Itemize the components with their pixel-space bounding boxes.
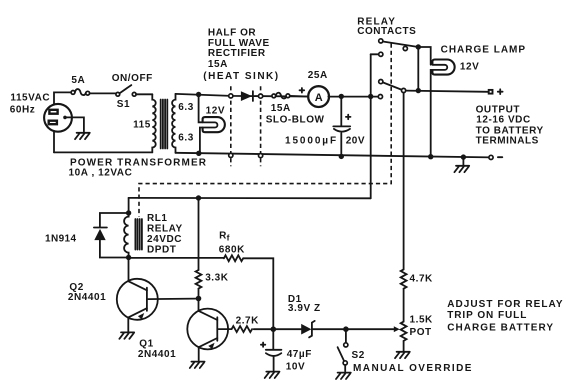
switch S1 (116, 92, 120, 96)
wire bottom rail left (54, 151, 152, 153)
wire D1 anode (276, 328, 301, 330)
lamp DS2 charge lamp (432, 60, 454, 75)
heat sink boundary dashed left (230, 86, 232, 166)
node filter cap bottom (339, 154, 344, 159)
node relay coil bottom (126, 255, 131, 260)
sections get appended here (44, 85, 491, 157)
wire ground stub output (462, 157, 464, 165)
relay contact pole1 common terminal (379, 52, 383, 56)
svg-text:115: 115 (133, 119, 151, 130)
capacitor C2 plate flat (266, 349, 282, 351)
mechanical linkage dashed (139, 44, 391, 217)
transformer T1 primary winding (152, 94, 155, 152)
svg-text:12V: 12V (460, 61, 479, 72)
transistor Q1 2N4401 (187, 309, 228, 350)
node D1 anode junction (271, 326, 277, 332)
svg-text:115VAC: 115VAC (10, 92, 50, 103)
capacitor C1 plate curved (334, 129, 350, 132)
wire plus output (406, 91, 489, 92)
svg-text:5A: 5A (71, 75, 85, 86)
wire plug top to fuse (54, 92, 71, 104)
diode D2 1N914 anode triangle (94, 229, 105, 240)
wire charge lamp feed (418, 47, 430, 65)
wire Q1 collector lead (198, 299, 200, 311)
wire divider feed down (403, 93, 405, 270)
resistor R4 4.7K zigzag (401, 269, 407, 288)
wire wiper arm (346, 328, 395, 330)
svg-text:POT: POT (410, 327, 432, 338)
svg-text:1N914: 1N914 (45, 233, 77, 244)
wire fuse to switch (90, 92, 116, 94)
fuse F2 15A slo-blow (272, 94, 276, 98)
svg-text:CONTACTS: CONTACTS (357, 26, 416, 37)
rectifier diode CR1 (241, 91, 252, 101)
wire Rf to D1 junction (243, 258, 273, 326)
svg-text:24VDC: 24VDC (147, 234, 182, 245)
svg-text:RECTIFIER: RECTIFIER (208, 48, 266, 59)
svg-text:CHARGE BATTERY: CHARGE BATTERY (447, 323, 554, 334)
label plus sign output (498, 89, 503, 94)
wire Q2 collector lead (128, 258, 130, 282)
capacitor C1 stub bottom (340, 133, 342, 156)
wire Q1 base to 2.7K (219, 328, 232, 330)
switch S2 bottom terminal (343, 361, 347, 365)
terminal circle bottom left of heat sink (229, 153, 233, 157)
zener diode D1 3.9V triangle (301, 324, 311, 335)
svg-text:60Hz: 60Hz (10, 104, 36, 115)
svg-text:Q2: Q2 (69, 282, 83, 293)
wire secondary bottom rail (176, 153, 492, 158)
node filter cap top (339, 94, 344, 99)
svg-text:Q1: Q1 (139, 338, 153, 349)
ground (pot) (395, 352, 410, 358)
switch S2 ground stub (344, 365, 346, 371)
svg-text:f: f (227, 233, 230, 243)
wire pilot lamp riser upper (199, 95, 203, 123)
relay contact pole1 fixed terminal (379, 39, 383, 43)
svg-text:4.7K: 4.7K (410, 274, 434, 285)
relay RL1 core (135, 219, 142, 250)
svg-text:12V: 12V (206, 105, 225, 116)
node output minus ground junction (461, 154, 466, 159)
terminal circle top right of heat sink (259, 94, 263, 98)
svg-text:RELAY: RELAY (147, 223, 183, 234)
diode D2 1N914 wires (100, 213, 129, 258)
relay contact pole2 fixed terminal (379, 80, 383, 84)
resistor Rf 680K zigzag (224, 255, 243, 261)
AC plug P1 115VAC (44, 104, 72, 132)
heat sink boundary dashed right (260, 86, 262, 166)
relay contact pole2 arm (383, 82, 404, 90)
zener diode D1 bar with hooks (309, 321, 315, 338)
svg-text:A: A (315, 92, 323, 104)
svg-text:MANUAL OVERRIDE: MANUAL OVERRIDE (353, 363, 473, 374)
wire Q1 emitter lead (198, 347, 200, 360)
svg-text:ON/OFF: ON/OFF (112, 73, 153, 84)
plug slot upper (49, 110, 57, 114)
ground (plug) (75, 133, 90, 139)
node charge lamp bottom (428, 154, 433, 159)
polarity plus capacitor C1 (346, 115, 351, 120)
relay contact pole2 throw terminal (402, 88, 406, 92)
resistor R2 3.3K zigzag (196, 270, 202, 289)
switch S2 top terminal (344, 343, 348, 347)
capacitor C2 stub bottom (273, 356, 275, 370)
node plus wire junction (416, 88, 421, 93)
svg-text:ADJUST FOR RELAY: ADJUST FOR RELAY (447, 299, 563, 310)
capacitor C2 47uF stub (272, 329, 274, 349)
ground (Q2 emitter) (119, 332, 134, 338)
svg-text:10A , 12VAC: 10A , 12VAC (69, 167, 133, 178)
potentiometer R5 1.5K zigzag (401, 322, 407, 341)
wire plug pin to ground (67, 117, 84, 131)
svg-text:1.5K: 1.5K (410, 314, 434, 325)
wire D1 cathode to pot node (313, 328, 344, 330)
wire 3.3K riser (198, 198, 200, 270)
ground (Q1 emitter) (190, 362, 205, 368)
terminal minus output circle (489, 155, 493, 159)
ammeter M1 25A (308, 86, 329, 107)
relay RL1 coil winding (124, 213, 129, 258)
svg-text:(HEAT SINK): (HEAT SINK) (203, 71, 279, 82)
node contact pole1 output (416, 44, 421, 49)
svg-text:CHARGE LAMP: CHARGE LAMP (441, 45, 526, 56)
transformer T1 secondary winding (172, 94, 175, 153)
relay contact pole1 arm (383, 42, 419, 48)
svg-text:TRIP ON FULL: TRIP ON FULL (447, 310, 527, 321)
terminal circle bottom right of heat sink (259, 154, 263, 158)
node Q1 collector Q2 base (196, 296, 202, 302)
wire charge lamp to bottom rail (431, 70, 433, 157)
svg-text:3.9V Z: 3.9V Z (288, 303, 321, 314)
diode D2 1N914 cathode bar (94, 227, 107, 229)
wire plug bottom to rail (53, 132, 55, 153)
wire relay top horizontal (129, 197, 371, 199)
node relay riser top (368, 94, 373, 99)
plug ground pin (63, 116, 67, 120)
svg-text:15A: 15A (208, 59, 228, 70)
lamp DS1 12V pilot (203, 117, 225, 132)
wire relay bottom to Rf (129, 257, 224, 259)
wiper arrowhead (394, 326, 400, 332)
ground (S2) (336, 373, 351, 379)
wire stub to contact pole1 common (371, 53, 379, 55)
terminal circle top left of heat sink (229, 94, 233, 98)
node pilot lamp bottom junction (196, 151, 201, 156)
wire pilot lamp riser lower (200, 128, 203, 154)
svg-text:20V: 20V (346, 136, 365, 147)
wire relay coil left drop (128, 198, 130, 213)
node 3.3K riser top (196, 195, 201, 200)
node relay coil top (126, 210, 131, 215)
wire pole1 output down to plus wire (417, 47, 419, 91)
plug slot lower (49, 121, 57, 125)
svg-text:15000µF: 15000µF (285, 135, 338, 146)
capacitor C2 plate curved (266, 353, 281, 356)
node pot wiper junction (343, 326, 349, 332)
svg-text:10V: 10V (286, 361, 305, 372)
wire 2.7K to D1 node (254, 328, 271, 330)
fuse F1 5A (71, 91, 75, 95)
polarity plus C2 (261, 343, 265, 347)
capacitor C1 15000uF stub top (340, 96, 342, 126)
wire ammeter to contacts rail (328, 96, 378, 98)
svg-text:12-16 VDC: 12-16 VDC (476, 115, 530, 126)
svg-text:3.3K: 3.3K (205, 273, 229, 284)
svg-text:TERMINALS: TERMINALS (476, 135, 539, 146)
capacitor C1 plate flat (333, 125, 350, 127)
wire 3.3K to node (198, 289, 200, 296)
svg-text:6.3: 6.3 (178, 133, 194, 144)
wire 4.7K to pot (403, 289, 405, 322)
svg-text:15A: 15A (271, 103, 291, 114)
node pilot lamp top junction (196, 92, 201, 97)
wire pot to ground (403, 341, 405, 351)
svg-text:680K: 680K (219, 244, 245, 255)
resistor R3 2.7K zigzag (232, 326, 252, 332)
svg-text:DPDT: DPDT (147, 244, 176, 255)
switch S2 stub (345, 329, 347, 342)
wire contact common riser (370, 54, 372, 198)
terminal plus output square (489, 90, 493, 94)
ground (output) (454, 166, 469, 172)
svg-text:47µF: 47µF (287, 349, 312, 360)
svg-text:25A: 25A (308, 70, 328, 81)
relay contact pole1 throw terminal (403, 46, 407, 50)
wire Q2 base to node (148, 298, 196, 301)
svg-text:RL1: RL1 (147, 213, 168, 224)
svg-text:2.7K: 2.7K (236, 316, 260, 327)
wire fuse to ammeter (290, 95, 308, 98)
wire Q2 emitter lead (127, 317, 129, 331)
svg-text:2N4401: 2N4401 (138, 349, 176, 360)
ground (C2) (265, 372, 280, 378)
label minus sign output (498, 156, 502, 158)
polarity plus before ammeter (300, 88, 305, 93)
switch S2 arm (338, 347, 345, 361)
svg-text:S2: S2 (352, 350, 365, 361)
transistor Q2 2N4401 (117, 279, 158, 320)
wire switch to transformer primary (136, 93, 152, 95)
svg-text:2N4401: 2N4401 (68, 292, 106, 303)
wire secondary top rail (176, 94, 308, 97)
svg-text:S1: S1 (117, 99, 130, 110)
svg-text:SLO-BLOW: SLO-BLOW (266, 114, 325, 125)
relay contact pole2 common terminal on rail (378, 95, 382, 99)
svg-text:6.3: 6.3 (178, 102, 194, 113)
transformer T1 core (161, 100, 168, 149)
